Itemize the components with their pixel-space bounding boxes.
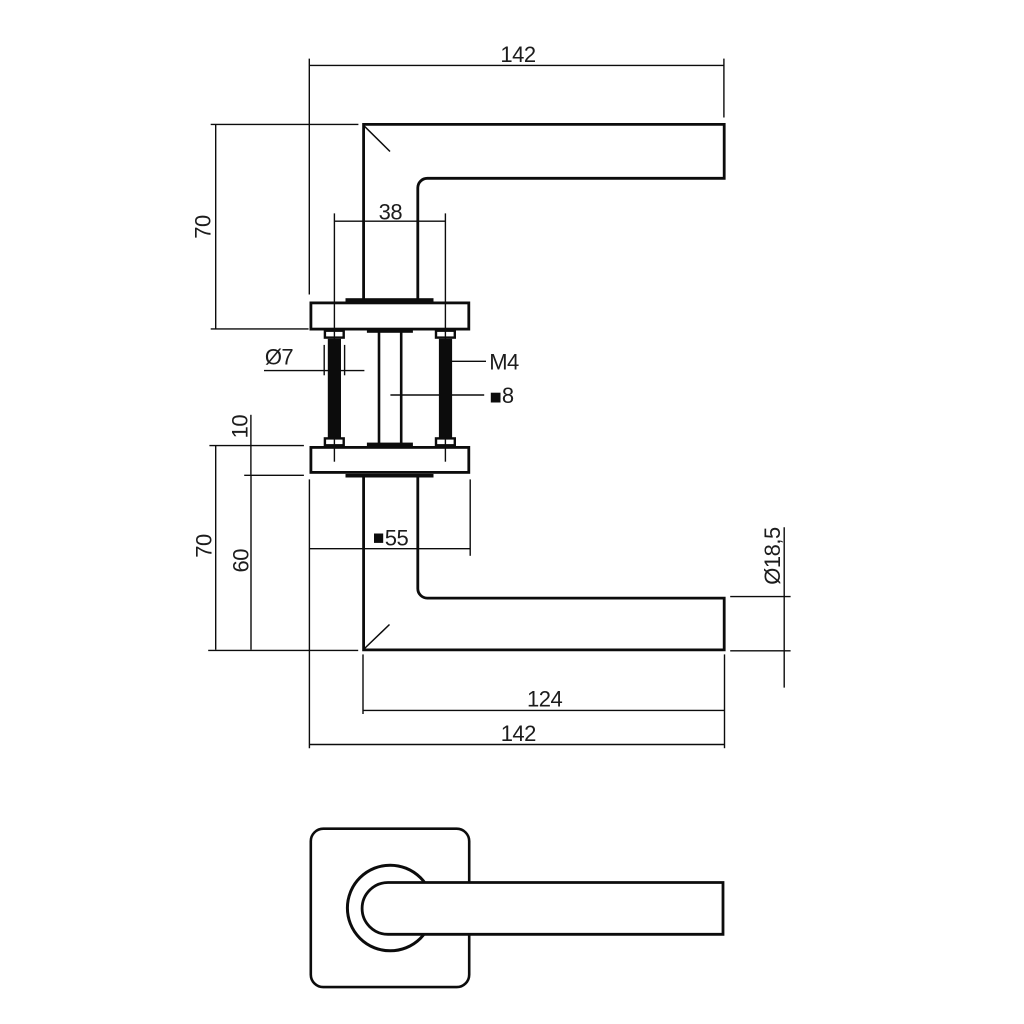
- top rose plate side view: [311, 303, 469, 329]
- dimension 70 bottom line: [215, 446, 217, 650]
- dimension 142 bottom line: [309, 744, 724, 746]
- svg-text:Ø7: Ø7: [265, 345, 294, 370]
- svg-text:8: 8: [502, 383, 514, 408]
- dimension 70 top line: [215, 124, 217, 329]
- dimension 142 top left extension: [308, 59, 310, 295]
- left bolt centerline lower: [333, 437, 335, 462]
- left bolt threaded rod M4: [328, 339, 341, 438]
- dimension 124 line: [363, 709, 725, 711]
- dimension 55 line: [309, 548, 470, 550]
- svg-text:60: 60: [228, 549, 253, 573]
- handle base collar bottom: [346, 474, 434, 478]
- right bolt centerline upper: [444, 213, 446, 347]
- spindle shaft left edge: [378, 332, 381, 443]
- diameter 7 leader line: [264, 370, 364, 372]
- diameter 7 right tick: [344, 345, 346, 375]
- dimension 124/142 right extension: [724, 654, 726, 748]
- svg-text:142: 142: [501, 721, 536, 746]
- svg-text:10: 10: [228, 415, 253, 439]
- handle bottom side view outline: [364, 476, 725, 650]
- diameter 18.5 lower tick: [730, 650, 790, 652]
- dimension 124 left extension: [362, 654, 364, 714]
- svg-text:124: 124: [527, 687, 562, 712]
- svg-text:M4: M4: [489, 350, 519, 375]
- svg-text:70: 70: [191, 534, 216, 558]
- dimension 55 right extension: [469, 479, 471, 555]
- left bolt centerline upper: [333, 213, 335, 347]
- right bolt top nut: [436, 331, 455, 338]
- dimension 10 lower tick: [244, 474, 304, 476]
- bottom view chamfer diagonal mark: [365, 625, 390, 649]
- dimension 10 upper tick: [209, 445, 304, 447]
- handle front view neck and grip: [362, 883, 723, 935]
- right bolt centerline lower: [444, 437, 446, 462]
- dimension 142 top right extension: [723, 59, 725, 118]
- svg-text:Ø18,5: Ø18,5: [760, 527, 785, 585]
- top view chamfer diagonal mark: [364, 126, 390, 151]
- square symbol for 55: [374, 534, 383, 543]
- svg-text:70: 70: [191, 215, 216, 239]
- dimension 70 top upper tick: [211, 123, 359, 125]
- dimension 70 bottom lower tick: [208, 649, 358, 651]
- dimension 142 top line: [309, 64, 724, 66]
- shared left extension line: [308, 479, 310, 748]
- dimension 70 top lower tick: [211, 328, 309, 330]
- svg-text:142: 142: [500, 42, 535, 67]
- dimension 10 line: [250, 415, 252, 475]
- rose front view square: [311, 829, 469, 987]
- square 8 leader line: [390, 394, 484, 396]
- spindle shaft right edge: [400, 332, 403, 443]
- right bolt bottom nut: [436, 438, 455, 445]
- handle base collar top: [346, 298, 434, 302]
- diameter 18.5 dimension line: [783, 527, 785, 687]
- M4 leader line: [452, 360, 486, 362]
- spindle bottom collar: [367, 443, 413, 446]
- left bolt bottom nut: [325, 438, 344, 445]
- svg-text:38: 38: [379, 200, 403, 225]
- svg-text:55: 55: [385, 526, 409, 551]
- diameter 18.5 upper tick: [730, 596, 790, 598]
- rose front view outer circle: [347, 865, 433, 951]
- square symbol for 8: [491, 393, 501, 403]
- dimension 38 line: [334, 220, 445, 222]
- spindle top collar: [367, 329, 413, 333]
- left bolt top nut: [325, 331, 344, 338]
- diameter 7 left tick: [323, 345, 325, 375]
- handle top side view outline: [364, 124, 725, 300]
- bottom rose plate side view: [311, 447, 469, 472]
- dimension 60 line: [250, 475, 252, 650]
- right bolt threaded rod M4: [439, 339, 452, 438]
